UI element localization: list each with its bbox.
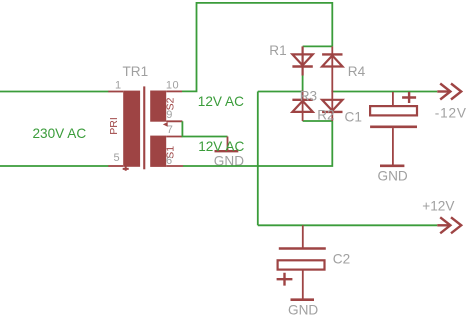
diode R1 — [292, 46, 312, 75]
transformer TR1 pin 6 stub — [166, 165, 183, 167]
transformer TR1 pin 9 stub — [166, 120, 182, 122]
svg-text:C2: C2 — [333, 252, 350, 267]
wire R1 cathode to +DC node — [302, 76, 304, 93]
svg-text:PRI: PRI — [108, 117, 120, 135]
svg-text:230V AC: 230V AC — [33, 126, 87, 141]
wire pin 6 to bridge bottom — [183, 121, 332, 166]
wire 230V AC bottom to pin 5 — [0, 165, 109, 167]
wire bridge top node — [303, 45, 333, 47]
ground below C1 — [380, 165, 404, 168]
transformer TR1 pin 7 stub — [166, 136, 182, 138]
diode R2 — [322, 91, 342, 122]
svg-text:+12V: +12V — [422, 198, 454, 213]
capacitor C2 — [278, 225, 326, 299]
svg-text:12V AC: 12V AC — [198, 94, 244, 109]
svg-text:TR1: TR1 — [123, 64, 149, 79]
wire center tap pins 9+7 — [182, 121, 227, 136]
svg-text:C1: C1 — [345, 109, 362, 124]
transformer core — [143, 86, 145, 169]
svg-text:GND: GND — [288, 302, 318, 317]
svg-text:R1: R1 — [269, 43, 286, 58]
pin 7 arrow marker — [163, 122, 168, 127]
svg-text:7: 7 — [167, 124, 173, 136]
svg-text:1: 1 — [115, 80, 121, 92]
svg-text:R3: R3 — [300, 89, 317, 104]
wire -DC node to C1 and -12V — [332, 91, 437, 93]
transformer TR1 pin 10 stub — [166, 90, 182, 92]
wire pin 10 to top loop — [182, 3, 332, 92]
transformer TR1 pin 5 stub — [108, 165, 123, 167]
wire +12V rail — [258, 224, 438, 226]
supply symbol 12V AC GND bar — [215, 150, 239, 152]
svg-text:5: 5 — [114, 152, 120, 164]
transformer TR1 secondary winding S1 — [150, 136, 166, 167]
svg-text:6: 6 — [166, 155, 172, 167]
svg-text:9: 9 — [166, 109, 172, 121]
-12V output arrow — [437, 84, 461, 100]
transformer TR1 primary winding PRI — [123, 91, 140, 167]
wire +DC vertical down — [257, 92, 259, 226]
C1 plus sign — [402, 92, 416, 103]
wire +DC node left — [258, 91, 303, 93]
svg-text:R2: R2 — [317, 108, 334, 123]
C2 plus sign — [277, 273, 293, 286]
ground below C2 — [291, 298, 315, 301]
supply symbol 12V AC GND stub — [227, 137, 229, 152]
transformer TR1 secondary winding S2 — [150, 91, 166, 122]
transformer TR1 pin 1 stub — [108, 91, 123, 93]
capacitor C1 — [370, 92, 417, 166]
diode R4 — [322, 46, 342, 92]
svg-text:-12V: -12V — [435, 105, 467, 120]
svg-text:GND: GND — [378, 169, 408, 184]
svg-text:R4: R4 — [348, 64, 366, 79]
svg-text:12V AC: 12V AC — [198, 139, 244, 154]
diode R3 — [292, 91, 312, 122]
wire bridge bottom node — [303, 120, 333, 122]
primary pin end cross marker — [123, 166, 129, 171]
svg-text:10: 10 — [166, 79, 179, 91]
+12V output arrow — [437, 217, 461, 233]
wire 230V AC top to pin 1 — [0, 91, 109, 93]
